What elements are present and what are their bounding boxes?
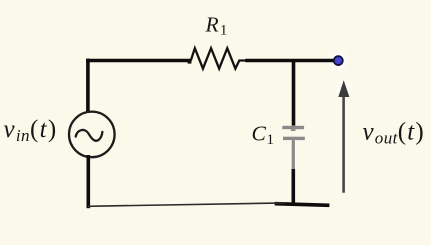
capacitor C1 (gray plates)	[282, 126, 304, 129]
svg-text:vin(t): vin(t)	[4, 116, 58, 145]
halo around arrow head	[332, 76, 356, 100]
wire: left vertical from top corner down to source top	[86, 59, 90, 112]
wire: capacitor branch lower black segment	[291, 169, 295, 205]
wire: bottom-right thick bar	[277, 204, 328, 206]
sine symbol inside source	[76, 130, 103, 141]
node B: output node (blue dot)	[334, 56, 343, 65]
wire: thin bottom return wire	[88, 203, 286, 206]
voltage source U1 (sine source circle)	[69, 112, 115, 158]
resistor R1 (zigzag)	[191, 48, 246, 68]
capacitor C1 lower gray lead	[292, 140, 295, 170]
resistor R1 lead-in cap bump	[188, 60, 192, 63]
arrow for v_out (shaft)	[342, 96, 345, 193]
wire: left vertical from source bottom to bottom-left corner	[87, 157, 91, 207]
node A (top-left corner junction)	[86, 59, 90, 63]
wire: top horizontal from resistor to output node	[245, 59, 337, 63]
white halo around output node	[325, 48, 351, 74]
wire: top horizontal from left corner to resistor	[86, 59, 191, 63]
arrow head	[338, 80, 349, 97]
wire: capacitor branch vertical (top wire down to capacitor)	[292, 61, 296, 126]
